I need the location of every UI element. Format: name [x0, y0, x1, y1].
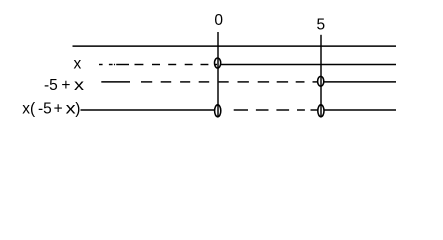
- row x: solid positive segment right of 0: [221, 64, 396, 66]
- row label -5 + x: [44, 77, 84, 94]
- svg-text:x: x: [74, 77, 84, 94]
- row label x( -5 + x): [22, 101, 80, 118]
- zero marker: row -5+x at 5: [318, 76, 324, 86]
- vertical line at x=0: [217, 32, 219, 117]
- top number-line axis: [73, 45, 397, 47]
- row -5+x: dashed negative segment left of 5: [101, 81, 318, 83]
- row x(-5+x): solid positive segment left of 0: [81, 109, 215, 111]
- zero marker: row x(-5+x) at 5: [318, 105, 324, 117]
- row x: dashed negative segment left of 0: [99, 64, 217, 66]
- zero marker: row x(-5+x) at 0: [215, 105, 221, 117]
- svg-text:-5: -5: [38, 101, 52, 118]
- row -5+x: solid positive segment right of 5: [324, 81, 396, 83]
- svg-text:0: 0: [214, 12, 223, 29]
- row x(-5+x): solid positive segment right of 5: [324, 109, 396, 111]
- svg-text:x(: x(: [22, 101, 36, 118]
- svg-text:-5: -5: [44, 77, 58, 94]
- svg-text:+: +: [54, 101, 63, 118]
- svg-text:x: x: [74, 56, 82, 73]
- vertical line at x=5: [320, 35, 322, 117]
- row x(-5+x): dashed negative segment between 0 and 5: [234, 109, 319, 111]
- zero marker: row x at 0: [215, 58, 221, 68]
- svg-text:): ): [75, 101, 80, 118]
- svg-text:+: +: [61, 77, 70, 94]
- svg-text:5: 5: [316, 17, 325, 34]
